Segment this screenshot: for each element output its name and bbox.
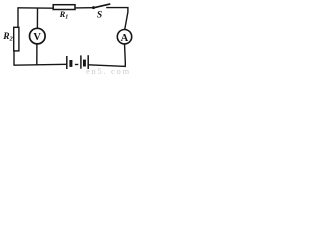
resistor R1 [53,5,75,10]
wire bottom horizontal right segment [89,65,126,67]
wire voltmeter top branch [36,8,38,28]
wire top horizontal right segment and top-right corner [106,8,128,30]
wire bottom horizontal middle segment (battery to V junction) [37,63,67,66]
voltmeter V [30,28,46,44]
svg-text:en5. com: en5. com [86,66,131,75]
wire voltmeter bottom branch [36,44,38,65]
wire top-left vertical (left branch upper) [17,8,19,28]
wire left branch lower (R2 to bottom-left corner) [13,51,15,66]
wire bottom horizontal left segment [14,64,38,66]
wire right branch lower (A to bottom-right corner) [124,44,127,67]
switch S hinge dot [92,6,95,9]
svg-text:S: S [97,11,102,21]
battery thin plate middle [80,55,82,68]
svg-text:A: A [121,33,129,44]
ammeter A [117,30,131,44]
svg-text:V: V [33,32,41,43]
switch S arm [94,4,111,8]
resistor R2 [14,27,19,51]
battery thin plate right (positive) [87,55,89,69]
wire top horizontal left segment [17,7,53,9]
wire top horizontal from R1 to switch [75,7,93,9]
battery thin plate left (positive) [66,56,68,69]
battery thick plate left (negative) [69,60,72,67]
battery thick plate right (negative) [83,60,86,67]
battery dash between cells [75,64,78,66]
